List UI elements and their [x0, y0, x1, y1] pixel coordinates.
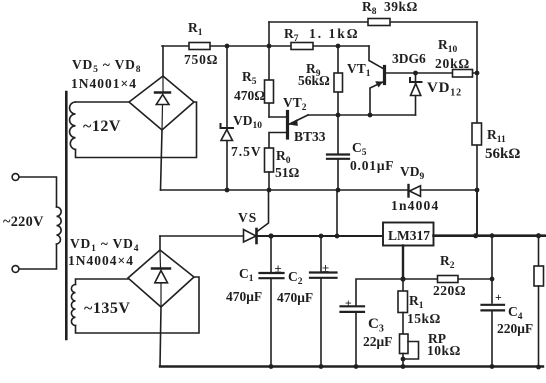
svg-text:C1: C1 [239, 266, 254, 284]
svg-text:1N4001×4: 1N4001×4 [71, 76, 137, 91]
wire 220V top lead [19, 177, 57, 207]
resistor load right [534, 266, 544, 286]
wire VT1 emitter [370, 82, 384, 116]
bridge VD5-VD8 diamond [129, 76, 194, 130]
svg-text:LM317: LM317 [388, 228, 430, 243]
svg-text:VD12: VD12 [427, 80, 462, 99]
svg-text:±: ± [345, 296, 352, 310]
transistor VT1 [383, 67, 386, 84]
svg-text:C3: C3 [368, 316, 384, 335]
winding ~135V [71, 285, 75, 326]
svg-text:VD5 ~ VD8: VD5 ~ VD8 [72, 57, 141, 75]
wire R1/R7 rail [162, 45, 369, 47]
capacitor C4 [491, 236, 493, 303]
svg-text:470μF: 470μF [226, 289, 262, 304]
wire ground rail [160, 365, 543, 367]
wire RP wiper loop [403, 342, 419, 360]
wire VT1 base [385, 72, 477, 74]
wire 135V top AC [76, 279, 129, 285]
svg-text:R7: R7 [284, 26, 299, 44]
diode VD9 [407, 185, 409, 197]
resistor R7 [291, 43, 313, 50]
resistor R1 [189, 43, 210, 50]
capacitor C5 [337, 115, 339, 153]
wire VS cathode to LM317 [257, 235, 384, 237]
resistor R8 [368, 19, 390, 26]
wire 220V bottom lead [19, 244, 57, 269]
wire left vertical from top rail [268, 22, 270, 46]
resistor R9 [334, 73, 343, 92]
svg-text:R10: R10 [438, 37, 458, 55]
wire R0 to rail [268, 172, 270, 190]
wire LM317 ADJ [402, 246, 404, 280]
wire VT2 B2 stub [269, 116, 286, 118]
zener VD12 [415, 73, 417, 115]
svg-text:220Ω: 220Ω [433, 283, 466, 298]
wire VT2 emitter [289, 115, 309, 125]
wire R9/C5 vertical [337, 46, 339, 115]
regulator LM317 box [383, 223, 434, 246]
wire VT2 B1 stub [269, 133, 286, 149]
capacitor C3 [341, 306, 365, 312]
svg-text:7.5V: 7.5V [231, 144, 262, 159]
svg-text:R1: R1 [188, 20, 203, 38]
svg-text:470μF: 470μF [277, 290, 313, 305]
wire lower bridge top to VS wire [159, 236, 161, 250]
wire lower bridge bottom to ground rail [160, 307, 161, 367]
svg-text:56kΩ: 56kΩ [298, 73, 330, 88]
svg-text:~220V: ~220V [3, 214, 44, 230]
wire x269 vertical R5 branch [268, 46, 270, 117]
wire upper bridge bottom to rail [161, 130, 163, 190]
svg-text:22μF: 22μF [363, 334, 392, 349]
svg-text:15kΩ: 15kΩ [407, 311, 441, 326]
resistor R2 [438, 276, 459, 283]
svg-text:C4: C4 [508, 304, 523, 322]
winding ~12V [70, 102, 76, 150]
wire 12V top AC [76, 101, 130, 103]
svg-text:56kΩ: 56kΩ [485, 146, 520, 162]
svg-text:1N4004×4: 1N4004×4 [68, 253, 134, 268]
wire VS gate [257, 190, 269, 232]
svg-text:R8: R8 [362, 0, 377, 17]
wire LM317 output [434, 234, 546, 237]
resistor R5 [265, 80, 274, 103]
svg-text:VD10: VD10 [233, 113, 262, 131]
wire VD10 vertical [226, 46, 228, 190]
wire 12V bottom AC [76, 102, 197, 158]
svg-text:C5: C5 [352, 140, 367, 158]
wire rail to VS-anode wire link [336, 190, 338, 236]
svg-text:220μF: 220μF [497, 321, 533, 336]
svg-text:20kΩ: 20kΩ [435, 56, 470, 71]
wire C3 branch [356, 279, 403, 305]
svg-text:0.01μF: 0.01μF [350, 158, 394, 173]
resistor R11 [472, 123, 482, 145]
wire right edge vertical [538, 236, 540, 266]
svg-text:1n4004: 1n4004 [391, 198, 439, 213]
svg-text:750Ω: 750Ω [184, 52, 218, 67]
wire emitter node rail [308, 114, 416, 116]
transformer core [65, 92, 68, 339]
bridge VD1-VD4 diamond [128, 250, 194, 307]
svg-text:R5: R5 [242, 69, 257, 87]
potentiometer RP [400, 334, 409, 354]
svg-text:BT33: BT33 [294, 129, 326, 144]
svg-text:10kΩ: 10kΩ [427, 343, 461, 358]
wire bridge top to R1 rail [162, 46, 164, 76]
svg-text:VD1 ~ VD4: VD1 ~ VD4 [70, 236, 139, 254]
svg-text:VS: VS [238, 210, 257, 225]
wire right vertical [476, 22, 478, 236]
capacitor C1 [270, 236, 272, 272]
svg-text:±: ± [275, 261, 282, 276]
transistor VT2 (UJT) [286, 112, 289, 139]
wire 135V bottom AC [76, 277, 200, 333]
wire mid rail y190 [161, 189, 478, 191]
resistor R10 [453, 70, 473, 78]
svg-text:~12V: ~12V [83, 118, 121, 135]
wire VS anode feed [160, 235, 244, 237]
svg-text:+: + [495, 290, 502, 304]
svg-text:VD9: VD9 [400, 164, 425, 182]
wire VT1 collector [369, 46, 384, 69]
svg-text:R2: R2 [440, 253, 455, 271]
svg-text:±: ± [322, 260, 329, 275]
resistor R0 [265, 148, 274, 172]
diode inside lower bridge [160, 250, 161, 307]
primary winding [57, 207, 62, 244]
svg-text:C2: C2 [288, 269, 303, 287]
capacitor C2 [320, 236, 322, 271]
resistor R1 15k [402, 279, 404, 291]
zener VD10 [221, 124, 234, 128]
terminal top [12, 174, 19, 181]
terminal bottom [12, 266, 19, 273]
svg-text:R11: R11 [487, 127, 506, 145]
svg-text:R0: R0 [276, 148, 291, 166]
svg-text:470Ω: 470Ω [234, 88, 265, 103]
svg-text:~135V: ~135V [84, 300, 130, 317]
svg-text:3DG6: 3DG6 [392, 51, 426, 66]
svg-text:1. 1kΩ: 1. 1kΩ [309, 26, 360, 41]
svg-text:R1: R1 [409, 293, 424, 311]
svg-text:VT1: VT1 [347, 61, 371, 79]
wire R11 down to output [476, 190, 478, 236]
wire top rail [269, 21, 477, 23]
svg-text:51Ω: 51Ω [275, 165, 300, 180]
svg-text:39kΩ: 39kΩ [384, 0, 418, 14]
thyristor VS [244, 230, 257, 243]
diode inside upper bridge [162, 76, 163, 130]
wire R2 rail [403, 278, 492, 280]
